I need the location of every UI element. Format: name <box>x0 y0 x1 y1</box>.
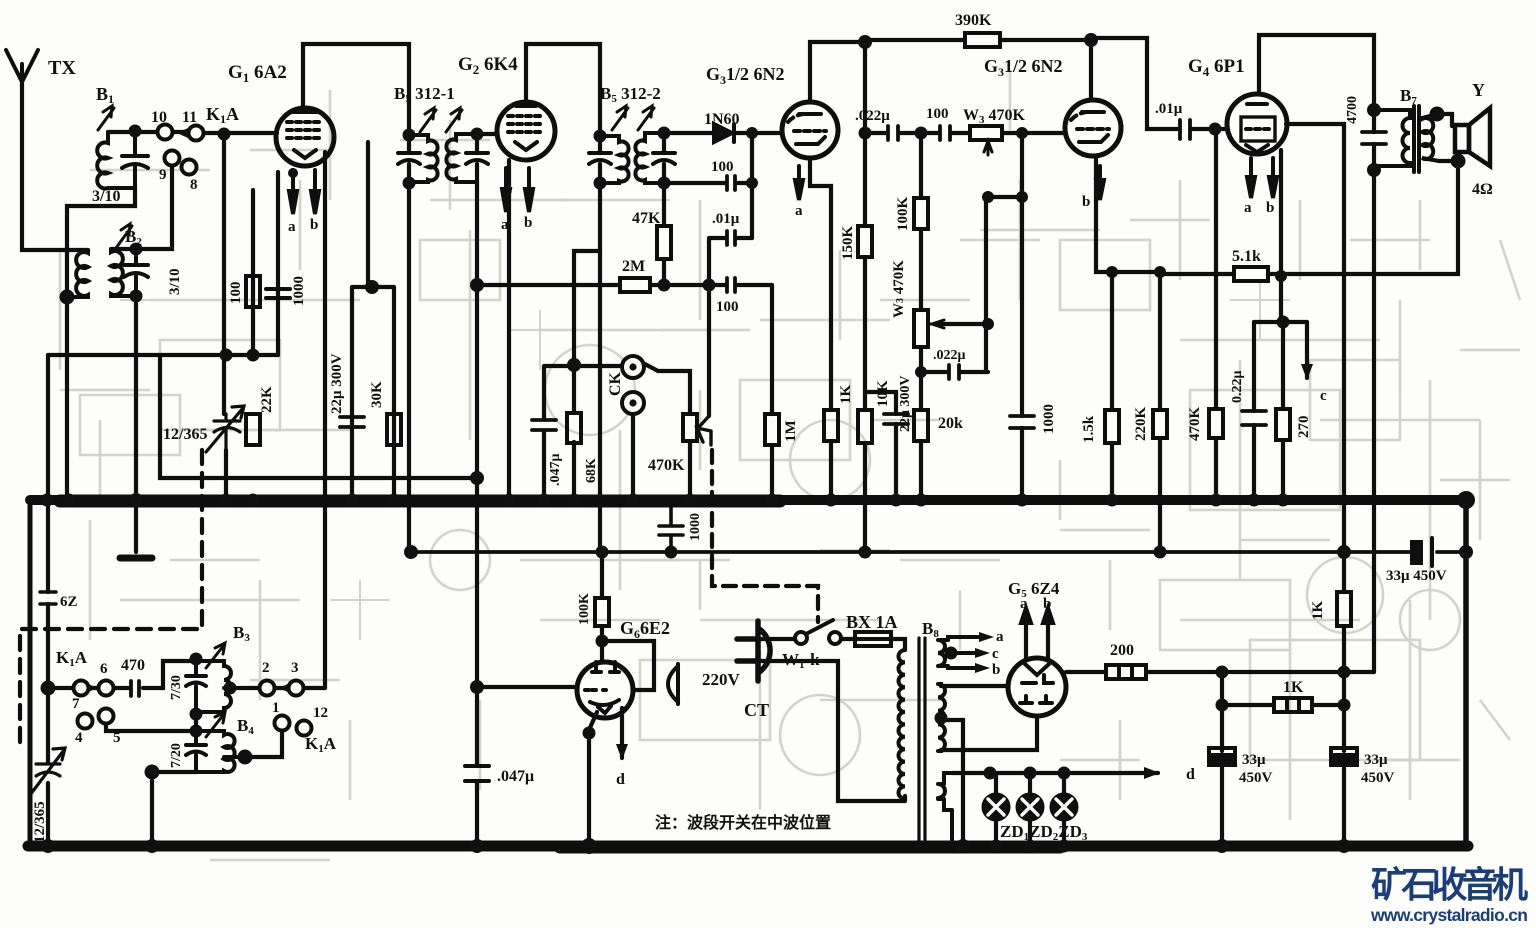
mains plug 220V <box>737 621 770 681</box>
svg-text:G2 6K4: G2 6K4 <box>458 54 518 77</box>
transformer B7 core <box>1414 106 1419 172</box>
wire B2 secondary top to switch contact 9 <box>111 166 172 249</box>
svg-text:1K: 1K <box>1283 679 1304 696</box>
switch K1A contact 8 <box>182 160 197 175</box>
wire 33u filter columns <box>1222 705 1344 846</box>
switch K1A contact 6 <box>99 681 114 696</box>
wire B8 primary bottom <box>903 796 907 801</box>
capacitor 22u 300V electrolytic <box>340 407 364 436</box>
svg-text:d: d <box>1186 766 1195 783</box>
switch K1A contact 11 <box>189 126 204 141</box>
svg-text:12/365: 12/365 <box>32 801 48 843</box>
lamp ZD3 <box>1052 795 1077 820</box>
tube G1 6A2 envelope <box>276 108 334 166</box>
wire G3a plate to 390K node <box>810 42 865 102</box>
wire CK jack sleeve to bus <box>631 412 635 500</box>
tube G3a 6N2 envelope <box>782 102 838 158</box>
resistor 270 <box>1276 409 1290 440</box>
wire B5-2 branch to 68K node <box>574 251 600 500</box>
transformer B8 rectifier heater winding <box>938 773 952 846</box>
svg-text:B3: B3 <box>233 623 250 644</box>
wire diode row <box>664 131 782 135</box>
svg-text:W3 470K: W3 470K <box>963 107 1026 126</box>
B4 adjust arrow <box>206 712 225 737</box>
wire 390K to G4 coupling <box>1091 38 1227 129</box>
wire B4 bottom to bus <box>152 772 196 846</box>
capacitor 33u450V filter 2 <box>1331 748 1357 755</box>
capacitor .047u (6E2 grid) <box>465 766 489 781</box>
svg-text:47K: 47K <box>632 210 661 227</box>
svg-text:100: 100 <box>926 106 949 122</box>
wire diode load column <box>750 133 754 238</box>
capacitor B2 trimmer <box>124 249 148 296</box>
wire B5-2 right column <box>662 133 666 183</box>
transformer B8 heater winding top <box>938 640 948 666</box>
wire 0.22u column <box>1252 322 1256 500</box>
capacitor .022u lower <box>949 365 959 379</box>
wire 22K column <box>251 190 255 355</box>
resistor 30K <box>387 414 401 445</box>
wire 1000pF screen bypass column <box>1020 197 1024 500</box>
jack CK tip <box>622 356 644 378</box>
svg-text:K1A: K1A <box>56 648 88 669</box>
transformer B5-2 left trimmer <box>589 153 611 164</box>
wire 22u takeoff <box>866 392 896 500</box>
wire 470K grid leak column <box>1214 129 1218 500</box>
wire dashed gang link bottom left <box>20 450 202 745</box>
svg-text:33μ: 33μ <box>1242 752 1266 768</box>
bus2 junction dots <box>41 839 55 853</box>
wire grid row B1 to switch to G1 <box>108 132 277 133</box>
switch K1A contact 5 <box>99 709 114 724</box>
potentiometer W3 470K vertical <box>914 310 928 347</box>
wire mains top prong to switch <box>760 637 855 641</box>
tube G6 target horn <box>668 664 678 704</box>
capacitor 4700 <box>1362 132 1386 144</box>
svg-text:G66E2: G66E2 <box>620 618 670 641</box>
transformer B5-1 primary coil <box>409 135 438 182</box>
wire heater d line <box>952 771 1158 775</box>
svg-text:390K: 390K <box>955 12 992 29</box>
svg-text:.047μ: .047μ <box>497 768 534 785</box>
tube G6 6E2 envelope <box>577 662 633 718</box>
switch K1A contact 10 <box>158 125 173 140</box>
svg-text:注：波段开关在中波位置: 注：波段开关在中波位置 <box>655 813 831 832</box>
transformer B5-1 left trimmer <box>398 153 420 164</box>
svg-text:68K: 68K <box>584 458 599 483</box>
wire 6E2 grid row <box>477 685 577 689</box>
svg-text:d: d <box>616 771 625 788</box>
tube G5 6Z4 envelope <box>1008 658 1066 716</box>
svg-text:6Z: 6Z <box>60 594 78 610</box>
wire 6E2 cathode to bus <box>589 712 597 846</box>
tube G3a spike a <box>795 166 803 200</box>
capacitor 6Z <box>40 592 56 604</box>
capacitor .01u coupling G4 <box>1180 120 1190 139</box>
transformer B5-1 right trimmer <box>466 153 488 164</box>
wire NFB row 5.1k to speaker <box>1160 161 1458 274</box>
wire ZD lamp stems <box>996 773 1064 846</box>
wire 4700 column B7 feed <box>1372 110 1376 672</box>
svg-text:.022μ: .022μ <box>855 108 890 124</box>
svg-text:12/365: 12/365 <box>163 426 207 443</box>
wire filter 1K parallel row <box>1222 672 1344 705</box>
transformer B2 secondary coil <box>111 249 136 296</box>
capacitor 1000 screen bypass <box>1010 416 1034 428</box>
wire B7 secondary to speaker <box>1437 114 1458 161</box>
antenna TX <box>6 50 38 82</box>
capacitor 100 detector <box>727 176 735 190</box>
svg-text:a: a <box>1244 200 1252 216</box>
svg-text:B4: B4 <box>237 716 254 737</box>
wire 270 column <box>1281 322 1285 500</box>
svg-text:0.22μ: 0.22μ <box>1230 371 1245 404</box>
wire B+ decoupling column 150K 10K <box>863 42 867 552</box>
switch K1A contact 12 <box>297 721 312 736</box>
svg-text:450V: 450V <box>1361 770 1395 786</box>
wire mains bottom prong return <box>760 661 905 801</box>
svg-text:ZD1ZD2ZD3: ZD1ZD2ZD3 <box>1000 822 1088 843</box>
resistor 47K <box>657 226 671 259</box>
fuse BX 1A <box>855 632 891 646</box>
svg-text:a: a <box>996 629 1004 645</box>
wire volume pot wiper dashed gang link <box>712 450 818 622</box>
tube G4 spike b <box>1269 158 1277 198</box>
wire AGC row with 2M <box>477 283 772 287</box>
capacitor 12/365 lower tuning <box>30 748 65 795</box>
svg-text:3/10: 3/10 <box>167 268 183 295</box>
B5-1 adjust arrows <box>420 108 462 132</box>
svg-text:4700: 4700 <box>1345 96 1360 124</box>
svg-text:.047μ: .047μ <box>548 454 563 487</box>
wire 1000pF column <box>276 172 280 355</box>
switch K1A contact 2 <box>260 681 275 696</box>
svg-text:a: a <box>288 219 296 235</box>
resistor 1K (filter, horizontal) <box>1274 698 1312 712</box>
transformer B3 coil <box>196 661 231 714</box>
wire .01u coupling row <box>709 238 752 416</box>
transformer B1 coil <box>97 132 135 189</box>
svg-text:.01μ: .01μ <box>1155 101 1183 117</box>
resistor 1K (filter, vertical) <box>1337 592 1351 626</box>
svg-text:B8: B8 <box>922 619 939 640</box>
resistor 2M <box>620 278 650 292</box>
tube G2 6K4 envelope <box>497 102 555 160</box>
svg-text:3: 3 <box>291 660 299 676</box>
svg-text:100: 100 <box>228 282 244 305</box>
capacitor 33u450V filter 1 <box>1209 748 1235 755</box>
resistor 22K <box>246 414 260 445</box>
svg-text:200: 200 <box>1110 642 1134 659</box>
wire G1 plate top loop to B5-1 <box>303 44 409 135</box>
svg-text:1000: 1000 <box>291 276 307 306</box>
svg-text:B5 312-1: B5 312-1 <box>394 84 455 105</box>
wire G4 plate top loop <box>1259 35 1374 110</box>
lamp ZD1 <box>984 795 1009 820</box>
svg-text:Y: Y <box>1472 80 1485 100</box>
wire 6E2 anode feed 100K column <box>600 552 604 662</box>
capacitor 1000 B+ bypass <box>659 505 683 549</box>
wire c test stub <box>1305 322 1309 378</box>
svg-text:7/20: 7/20 <box>169 743 184 768</box>
svg-text:20k: 20k <box>938 415 963 432</box>
switch K1A contact 4 <box>78 714 93 729</box>
wire .022u NFB row <box>865 131 970 135</box>
svg-text:b: b <box>992 662 1000 678</box>
wire 6E2 bracket <box>602 641 654 690</box>
capacitor 470 band <box>131 681 139 696</box>
transformer B5-2 right trimmer <box>653 153 675 164</box>
svg-text:BX 1A: BX 1A <box>846 612 898 632</box>
svg-text:4Ω: 4Ω <box>1472 181 1493 198</box>
capacitor 1000 (G1) <box>266 272 290 355</box>
wire B8 HT center tap to bus <box>941 720 963 846</box>
wire B5-1 left column to B+ <box>407 135 411 552</box>
svg-text:150K: 150K <box>840 226 856 261</box>
resistor 390K <box>965 33 1000 47</box>
wire volume pot bottom <box>688 441 692 500</box>
B5-2 adjust arrows <box>612 106 654 130</box>
svg-text:B1: B1 <box>96 84 114 106</box>
svg-text:a: a <box>795 203 803 219</box>
svg-text:CT: CT <box>744 700 769 720</box>
switch K1A contact 1 <box>275 716 290 731</box>
tube G2 spike a <box>502 168 510 212</box>
svg-text:K1A: K1A <box>305 734 337 755</box>
wire cathode bracket row <box>1254 320 1307 324</box>
capacitor 12/365 main tuning <box>206 406 244 452</box>
svg-text:470K: 470K <box>1187 407 1203 442</box>
wire B5-1 right column down AVC line <box>475 134 479 846</box>
tube G4 6P1 envelope <box>1227 94 1287 154</box>
wire 390K row <box>865 38 1091 42</box>
svg-text:100K: 100K <box>895 197 911 232</box>
switch K1A contact 7 <box>74 681 89 696</box>
resistor 68K <box>567 413 581 443</box>
transformer B4 trimmer <box>186 745 206 755</box>
transformer B2 primary coil <box>67 250 88 297</box>
resistor 200 <box>1106 665 1146 679</box>
svg-text:c: c <box>992 646 999 662</box>
transformer B4 coil <box>196 731 245 772</box>
tube G4 internals <box>1241 117 1275 141</box>
capacitor 100 NFB <box>940 126 950 140</box>
wire 47K column <box>662 183 666 285</box>
svg-text:B2: B2 <box>125 227 142 248</box>
wire G3a cathode to 1K <box>810 158 831 500</box>
svg-text:b: b <box>1266 200 1274 216</box>
tube G5 internals <box>1025 664 1049 675</box>
wire G3b cathode row <box>1096 156 1160 272</box>
svg-text:5: 5 <box>113 730 121 746</box>
svg-text:100: 100 <box>716 299 739 315</box>
svg-text:.01μ: .01μ <box>712 211 740 227</box>
wire B5-1 secondary to G2 grid <box>477 132 497 136</box>
svg-text:6: 6 <box>100 661 108 677</box>
svg-text:22μ 300V: 22μ 300V <box>898 375 913 432</box>
capacitor 22u 300V (decoupling) <box>884 414 908 424</box>
B1 adjust arrow <box>98 106 114 130</box>
node B+ rail wire2 <box>411 550 1466 554</box>
switch arrow 2-3 <box>278 684 288 692</box>
svg-text:30K: 30K <box>369 381 385 408</box>
capacitor 0.22u <box>1242 411 1266 425</box>
wire band switch row 7-6-470 <box>48 661 196 688</box>
svg-text:1000: 1000 <box>688 513 703 541</box>
svg-text:1: 1 <box>272 700 280 716</box>
capacitor .01u <box>727 231 735 245</box>
svg-text:TX: TX <box>48 57 76 79</box>
svg-text:矿石收音机: 矿石收音机 <box>1371 864 1528 905</box>
svg-text:11: 11 <box>182 109 197 126</box>
wire G3b plate up <box>1089 40 1093 100</box>
wire G2 plate loop to B5-2 <box>526 44 600 136</box>
svg-text:b: b <box>1043 596 1051 612</box>
transformer B7 primary coil <box>1374 110 1410 166</box>
wire G4 screen to B+ filter <box>1286 124 1344 706</box>
B8 heater taps a c b <box>948 637 979 668</box>
svg-text:7: 7 <box>72 696 80 712</box>
svg-text:7/30: 7/30 <box>169 675 184 700</box>
ground bus (bottom, heavy) <box>28 841 1468 852</box>
resistor 1.5k <box>1105 410 1119 443</box>
svg-text:a: a <box>1020 596 1028 612</box>
svg-text:G5 6Z4: G5 6Z4 <box>1008 579 1060 600</box>
transformer B5-1 secondary coil <box>446 134 477 182</box>
bus1 junction dots <box>41 494 54 507</box>
svg-text:100: 100 <box>711 159 734 175</box>
svg-text:2M: 2M <box>622 258 645 275</box>
tube G2 spike b <box>525 168 533 212</box>
transformer B5-2 secondary coil <box>635 133 664 183</box>
svg-text:33μ: 33μ <box>1364 752 1388 768</box>
svg-text:www.crystalradio.cn: www.crystalradio.cn <box>1370 905 1528 925</box>
svg-text:W1-k: W1-k <box>782 650 820 671</box>
svg-text:B5 312-2: B5 312-2 <box>600 84 661 105</box>
resistor 1K (G3a cathode) <box>824 410 838 441</box>
wire 220K column <box>1158 272 1162 552</box>
svg-text:10: 10 <box>151 109 167 126</box>
resistor 100K (NFB divider) <box>914 198 928 229</box>
wire 200 ohm rectifier output row <box>1066 670 1344 674</box>
tube G3b 6N2 envelope <box>1065 100 1121 156</box>
wire fuse to B8 primary <box>891 639 905 650</box>
wire 1.5k column <box>1110 272 1114 500</box>
wire G2 cathode to bus <box>507 160 511 500</box>
diode 1N60 <box>714 124 734 142</box>
svg-text:CK: CK <box>607 371 624 396</box>
svg-text:B7: B7 <box>1400 86 1417 107</box>
resistor 470K (G4 grid) <box>1209 409 1223 438</box>
wire oscillator tank row <box>48 353 278 357</box>
wire G1 screen node <box>352 142 394 500</box>
tube G1 internals <box>293 110 317 114</box>
resistor 20k <box>914 410 928 441</box>
wire d arrow under 6E2 <box>620 708 624 758</box>
wire G4 cathode column <box>1279 150 1283 322</box>
svg-text:22μ 300V: 22μ 300V <box>329 353 345 414</box>
svg-text:b: b <box>1082 194 1090 210</box>
tube G2 internals <box>516 104 536 108</box>
wire B4 tap to contact 1 <box>245 731 282 757</box>
svg-text:a: a <box>501 217 509 233</box>
svg-text:G1 6A2: G1 6A2 <box>228 62 287 85</box>
wire osc feedback row <box>160 355 477 478</box>
wire CK tip arm to volume pot <box>641 362 690 414</box>
tube G3a internals <box>799 112 821 116</box>
resistor 10K <box>858 410 872 443</box>
capacitor .047u detector <box>532 420 556 430</box>
svg-text:22K: 22K <box>259 386 275 413</box>
tube G1 spike b <box>311 170 319 214</box>
B2 adjust arrow <box>116 224 132 248</box>
wire B2 secondary bottom to bus and chassis <box>134 296 138 552</box>
resistor 150K <box>858 226 872 257</box>
svg-text:470K: 470K <box>648 457 685 474</box>
transformer B8 HT winding <box>938 684 945 751</box>
switch arrow 10-11 <box>177 128 188 138</box>
speaker Y <box>1455 125 1469 152</box>
svg-text:2: 2 <box>262 660 270 676</box>
switch K1A contact 9 <box>165 151 180 166</box>
svg-text:.022μ: .022μ <box>933 348 966 363</box>
wire left frame vertical joining buses <box>28 500 33 846</box>
svg-text:12: 12 <box>313 705 328 721</box>
svg-text:1.5k: 1.5k <box>1081 415 1097 443</box>
wire 100K W3 20k column <box>919 133 923 500</box>
wire 1M column <box>770 285 774 500</box>
wire detector node row to CK jack <box>544 366 625 500</box>
switch W1-k contact <box>795 632 807 644</box>
svg-text:c: c <box>1320 388 1327 404</box>
svg-text:G31/2 6N2: G31/2 6N2 <box>984 56 1063 79</box>
svg-text:b: b <box>524 215 532 231</box>
svg-text:4: 4 <box>75 730 83 746</box>
wire B3 bottom to B4 top <box>194 714 198 731</box>
svg-text:W3 470K: W3 470K <box>891 260 907 318</box>
wire B2 left bottom to bus <box>65 297 69 500</box>
logo crystalradio <box>1370 864 1528 925</box>
tube G1 cathode spike a <box>289 170 297 214</box>
B3 adjust arrow <box>206 643 225 668</box>
wire 6Z4 heater arrows <box>1026 618 1048 660</box>
transformer B8 core <box>919 638 925 844</box>
capacitor B1 trimmer <box>122 131 148 186</box>
resistor 1M <box>765 414 779 445</box>
antenna TX mast wire <box>22 82 88 250</box>
svg-text:10K: 10K <box>875 380 891 407</box>
switch arrow 7-6 <box>88 684 98 692</box>
tube G4 spike a <box>1247 158 1255 198</box>
svg-text:470: 470 <box>121 657 145 674</box>
svg-text:3/10: 3/10 <box>92 188 120 205</box>
transformer B5-2 primary coil <box>600 136 629 183</box>
capacitor .022u NFB top <box>888 126 898 140</box>
wire G1 third grid column to switch 3 <box>323 152 327 688</box>
ground chassis symbol <box>120 555 152 562</box>
svg-text:1N60: 1N60 <box>704 111 740 128</box>
svg-text:G31/2 6N2: G31/2 6N2 <box>706 64 785 87</box>
svg-text:G4 6P1: G4 6P1 <box>1188 56 1245 79</box>
svg-text:b: b <box>310 217 318 233</box>
wire 100pF detector cap row <box>664 181 752 185</box>
wire B8 HT top to 6Z4 plate <box>941 684 1008 688</box>
B+ rail junction dots <box>404 545 418 559</box>
wire contact 5 to B4 top <box>106 724 196 731</box>
svg-text:K1A: K1A <box>206 104 239 126</box>
wire filter node link <box>1344 670 1374 674</box>
svg-text:1K: 1K <box>838 385 854 405</box>
